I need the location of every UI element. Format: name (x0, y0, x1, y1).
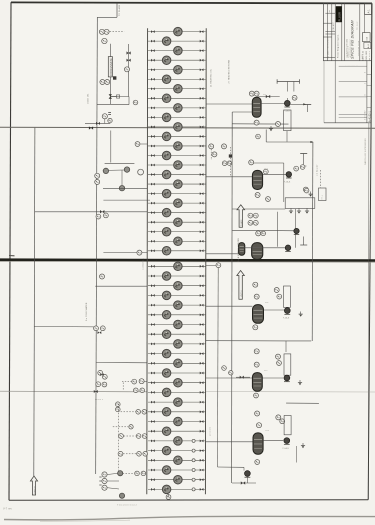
svg-text:P-2A,B: P-2A,B (284, 181, 291, 184)
continuation arrow left (30, 476, 37, 495)
V2 outlet to pump (263, 173, 286, 175)
bubble A4 a (253, 282, 258, 287)
gray dot lower (119, 493, 124, 498)
box E-2 drain 3 (305, 208, 309, 213)
exchanger top pipe (109, 44, 111, 57)
wall cluster dash line (210, 149, 212, 160)
pipe y209 run left (232, 208, 285, 210)
svg-text:PROCESS FLOW: PROCESS FLOW (358, 40, 360, 56)
inst row y436 (119, 434, 147, 439)
exchanger bottom pipe (109, 77, 111, 104)
pipe x286 drop (285, 341, 287, 352)
tray row 37 (148, 378, 206, 387)
strainer box S-5 (284, 354, 291, 375)
tray row 22 (148, 227, 206, 236)
tray row 15 (148, 161, 206, 170)
valve v2 (127, 59, 131, 62)
sheet number cell box (365, 4, 372, 15)
tray row 8 (148, 94, 206, 103)
pipe y142 riser (265, 130, 267, 143)
column line to V6 (206, 441, 253, 443)
valve leg vertical (128, 44, 130, 97)
sheet border left (9, 2, 11, 500)
revision cell line 1 (367, 73, 371, 75)
title left col row 3 (323, 56, 335, 58)
flare pipe vertical (116, 3, 118, 18)
pipe y252 stub (103, 252, 147, 254)
pipe y403 run (286, 402, 319, 404)
bubble pair V3 a (248, 213, 253, 218)
tray row 43 (148, 437, 206, 446)
column bottom bubble (166, 495, 171, 500)
svg-text:No. 4102: No. 4102 (357, 22, 359, 31)
crease line lower right (206, 391, 375, 393)
cluster valve dark (98, 331, 102, 334)
drain pipe drop (104, 119, 106, 123)
connector bubble pair 1a (132, 379, 137, 384)
title block col line 1 (331, 3, 333, 61)
svg-text:D-5: D-5 (264, 370, 267, 372)
bottoms line vertical (246, 477, 248, 483)
svg-text:CHK APP: CHK APP (332, 21, 335, 30)
inst row y411 (121, 410, 147, 415)
pipe y362 branch (96, 362, 147, 364)
bubble stack a (102, 472, 119, 477)
tray row 6 (148, 75, 206, 84)
instrument bubble pair a (100, 80, 105, 85)
revision row 1 (339, 65, 367, 67)
instrument cluster mark (108, 118, 112, 122)
svg-text:NO DATE REVISION BY: NO DATE REVISION BY (327, 36, 330, 58)
drain pipe y123 (85, 122, 110, 124)
vertical x295 stub (295, 209, 297, 248)
drain A4 (299, 312, 303, 317)
link y170 (109, 169, 124, 171)
pump P-3 (285, 245, 291, 251)
box E-2 drain 2 (297, 208, 301, 213)
tray row 10 (148, 113, 206, 122)
drain V2 area (309, 192, 313, 197)
pipe x312 vertical (311, 142, 314, 341)
feed line to V3a (206, 253, 239, 255)
title block row top right (365, 14, 372, 16)
bubble left of V2 top (263, 169, 268, 174)
instrument bubble pair b (105, 80, 110, 85)
tray row 39 (148, 398, 206, 407)
svg-text:D-1: D-1 (263, 94, 266, 96)
junction bubble a (222, 366, 227, 371)
drain below V1 (269, 126, 273, 131)
pipe y188 (103, 188, 147, 190)
stacked pair a (116, 402, 121, 407)
title block col line 0 (326, 3, 328, 61)
bubble below V6 (255, 460, 260, 465)
title block col line 4 (359, 3, 361, 61)
bubble below V2 a (255, 193, 260, 198)
svg-text:FLUOR: FLUOR (338, 12, 342, 22)
actuated valve dark (113, 76, 116, 79)
tray row 3 (148, 46, 206, 55)
svg-text:D-4: D-4 (265, 302, 268, 304)
wall cluster bubble d (222, 161, 227, 166)
bubble below V2 b (266, 197, 271, 202)
title small rect right (363, 33, 371, 42)
svg-text:P-1A,B: P-1A,B (284, 110, 291, 113)
pipe y286 branch (95, 285, 147, 287)
tray row 28 (148, 291, 206, 300)
tray row 38 (148, 388, 206, 397)
reflux pipe with valve (257, 95, 280, 98)
pump P-2 (286, 172, 292, 178)
title block outer box (323, 3, 371, 61)
svg-text:SH 1 OF 2: SH 1 OF 2 (369, 51, 371, 60)
crease line upper (0, 127, 375, 128)
gauge bubble e (119, 186, 124, 191)
bubble above V1 b (254, 91, 259, 96)
tray row 48 (148, 485, 206, 494)
column C-1 right wall (204, 28, 207, 494)
company logo black box (336, 6, 342, 22)
instrument bubble TI-1 (99, 29, 104, 34)
bubble on pipe x95 top (100, 274, 105, 279)
cluster near x95 b (100, 326, 105, 331)
wall cluster bubble e (227, 161, 231, 165)
fold line middle heavy (0, 260, 375, 262)
vessel V-2 accumulator (252, 170, 262, 189)
column feed line to V1 (206, 103, 253, 105)
pipe y211 long (35, 211, 147, 213)
revision area left margin (323, 61, 325, 123)
revision table left edge (334, 61, 336, 123)
pair1 leader dashes (122, 381, 131, 383)
tray row 33 (148, 340, 206, 349)
strainer box S-1 (284, 110, 291, 131)
svg-text:D-6: D-6 (266, 430, 269, 432)
pipe x34 vertical (34, 128, 35, 476)
connector pair y390 b (140, 388, 145, 393)
title cell A4 (364, 42, 371, 48)
bubble V3 f (261, 231, 266, 236)
tray row 20 (148, 208, 206, 217)
pump P1 discharge arrow (291, 103, 307, 105)
pipe x283 drop (283, 163, 285, 202)
title left col row 1 (323, 22, 331, 24)
revision cell line 4 (367, 107, 371, 109)
bubble A6 a (255, 411, 260, 416)
sheet border top (11, 2, 372, 3)
wall bubble y265 (216, 263, 221, 268)
gauge bubble b (124, 167, 129, 172)
bubble under g (96, 214, 101, 219)
wall bubble y144 stub (140, 143, 147, 145)
tray row 42 (148, 427, 206, 436)
tray row 4 (148, 56, 206, 65)
tray row 2 (148, 37, 206, 46)
title block col line 3b (344, 3, 346, 61)
svg-text:2 1 0 REV: 2 1 0 REV (364, 110, 366, 120)
svg-text:41 HEATING OIL: 41 HEATING OIL (209, 68, 212, 87)
svg-text:No: No (329, 10, 331, 12)
wall cluster bubble b (222, 144, 227, 149)
revision cell line 2 (367, 84, 371, 86)
pipe x232 vertical (231, 112, 234, 483)
bubble A4 b (254, 294, 259, 299)
pipe to P3 (238, 247, 285, 249)
bubble near small box (304, 188, 309, 193)
svg-text:TOWER T-1: TOWER T-1 (143, 257, 145, 270)
column line to V4 (206, 305, 252, 307)
tray row 11 (148, 123, 206, 131)
svg-text:TO FLARE: TO FLARE (118, 4, 121, 16)
svg-text:41-4.2 1: 41-4.2 1 (95, 399, 104, 401)
bubble pair V3 b (253, 213, 258, 218)
tray row 16 (148, 170, 206, 179)
stub line to wall 1 (144, 380, 147, 382)
signal dashed line top (107, 30, 125, 32)
x218 elbow drop (243, 467, 245, 470)
bubble near riser (256, 134, 261, 139)
V1 outlet to pump (261, 103, 284, 105)
svg-text:PK-1: PK-1 (322, 195, 324, 200)
wall cluster valve (229, 154, 232, 157)
V5 outlet line (262, 377, 283, 379)
junction bubble b (229, 371, 233, 375)
scan edge faint band left (40, 520, 130, 521)
bubble V3 e (256, 231, 261, 236)
bubble stack b (102, 478, 119, 483)
pipe y163 (105, 162, 135, 164)
continuation arrow A4 (237, 271, 245, 300)
gray dot right of stack (118, 471, 123, 476)
box exchanger E-2 (285, 198, 315, 209)
drop x110 upper (110, 131, 112, 163)
tray row 44 (148, 446, 206, 455)
flange pair marks (108, 113, 111, 115)
tray row 26 (148, 272, 206, 281)
revision row 5 (339, 116, 367, 118)
pipe V1 side elbow (232, 111, 252, 113)
pump P-5 (284, 375, 290, 382)
tray row 12 (148, 132, 206, 141)
bubble A4 c (274, 288, 279, 293)
tray row 32 (148, 330, 206, 339)
tray row 30 (148, 311, 206, 320)
bubble above V2 (249, 160, 254, 165)
connector bubble pair 1b (139, 379, 144, 384)
svg-text:J.R.M.: J.R.M. (362, 53, 364, 59)
column line to V5 (206, 377, 252, 379)
pipe y163 to right (251, 162, 284, 164)
pipe y341 left part (206, 340, 286, 342)
tray row 1 (148, 27, 206, 35)
bypass pipe top (110, 96, 129, 98)
vent stack T upper (304, 105, 311, 113)
pipe y142 arrowhead (310, 141, 313, 143)
svg-text:2: 2 (364, 72, 366, 73)
bubble stack c (102, 485, 119, 490)
bottoms pipe with valve (232, 481, 256, 484)
bubble far right V2 (303, 187, 308, 192)
vent stack T mid (300, 154, 307, 167)
title block col line 2 (334, 3, 336, 61)
gauge pair d (95, 180, 100, 185)
inst row y426 (113, 425, 133, 429)
pipe y341 elbow (286, 340, 311, 342)
pump discharge up (286, 98, 288, 100)
revision row 2 (339, 81, 367, 83)
tray row 29 (148, 301, 206, 310)
revision cell line 3 (367, 96, 371, 98)
crease valve dark (89, 126, 93, 129)
cluster y374 valve (100, 373, 104, 376)
vessel V-6 (253, 433, 263, 454)
svg-text:A-4102-1: A-4102-1 (368, 110, 371, 122)
pump P-7 bottoms (245, 471, 251, 478)
drain T lower (300, 237, 307, 246)
svg-text:Foster Engineering Co.: Foster Engineering Co. (337, 34, 340, 58)
cluster y384 bubble b (102, 382, 107, 387)
svg-text:2in COLD WATER: 2in COLD WATER (85, 302, 88, 321)
stacked pair b (116, 407, 121, 412)
tray row 21 (148, 218, 206, 227)
bubble A5 b (276, 354, 281, 359)
tray row 41 (148, 417, 206, 426)
signal dash to V2 (229, 147, 231, 176)
pump P-2b (294, 228, 299, 234)
tray row 18 (148, 189, 206, 198)
instrument bubble TR-1 (104, 29, 109, 34)
tray row 34 (148, 349, 206, 358)
pump P-4 (284, 308, 290, 315)
bubble A5 d (277, 361, 282, 366)
margin pipe right (367, 123, 370, 500)
tray row 13 (148, 142, 206, 151)
bubble pair V3 c (248, 220, 253, 225)
tray row 17 (148, 180, 206, 189)
tray row 23 (148, 237, 206, 246)
bypass vertical (128, 97, 130, 105)
svg-text:FLARE: FLARE (240, 219, 243, 226)
pipe y230 run (232, 229, 296, 232)
inline valve pair A5 (236, 376, 250, 379)
cluster y384 bubble a (96, 382, 101, 387)
instrument bubble LG-3 (102, 114, 107, 119)
title block row b (325, 30, 335, 32)
tray row 36 (148, 369, 206, 378)
gauge bubble a (103, 168, 108, 173)
svg-text:DWG 4102: DWG 4102 (366, 51, 368, 61)
svg-text:P-4A,B: P-4A,B (283, 317, 290, 320)
svg-text:3in RELIEF: 3in RELIEF (317, 164, 319, 176)
bubble A5 c (254, 362, 259, 367)
control valve CV-1 (109, 94, 120, 99)
instrument bubble PI-2 (125, 67, 130, 72)
sheet border bottom (9, 499, 368, 501)
continuation arrow flare (237, 205, 245, 227)
bubble below V4 (253, 325, 258, 330)
condenser drop 1 (286, 82, 288, 92)
bubble A6 c (276, 415, 281, 420)
strainer outlet drop (286, 131, 288, 142)
svg-text:COLD OIL: COLD OIL (87, 93, 89, 104)
svg-text:CONDENSATE: CONDENSATE (110, 58, 113, 76)
column C-1 left wall (146, 28, 149, 494)
connector pair y390 a (134, 388, 139, 393)
title block col line 5 (364, 3, 366, 42)
revision row 4 (339, 113, 367, 115)
title left col row 2 (323, 36, 331, 38)
wall cluster bubble a (209, 144, 214, 149)
pipe y200 (103, 199, 150, 201)
svg-text:27 HEATING RETURN: 27 HEATING RETURN (228, 59, 231, 83)
pipe y124 run (232, 123, 288, 125)
bubble A6 b (257, 423, 262, 428)
tray row 31 (148, 320, 206, 329)
V6 outlet line (263, 440, 283, 442)
svg-text:4in BTMS: 4in BTMS (210, 426, 212, 436)
bubble A6 d (280, 419, 285, 424)
svg-text:D-2: D-2 (265, 168, 268, 170)
vessel V-3b (252, 243, 263, 260)
junction valve dark (100, 210, 104, 213)
instrument bubble LC-1 (102, 38, 107, 43)
vessel V-1 reflux drum (252, 97, 261, 117)
bubble right of P1 (292, 95, 297, 100)
pipe y142 run (266, 141, 313, 143)
tray row 40 (148, 408, 206, 417)
bubble under h (104, 213, 109, 218)
tray row 47 (148, 475, 206, 484)
pipe y326 branch (34, 326, 95, 328)
inst row y453 (118, 451, 147, 456)
cluster y391 valve (94, 390, 98, 393)
bubble on y252 (137, 250, 142, 255)
small box right (319, 188, 327, 201)
strainer box S-4 (284, 286, 291, 307)
vessel V-4 (253, 305, 264, 324)
box E-2 drain 1 (289, 208, 293, 213)
gauge open f (138, 169, 144, 175)
condenser drop 2 (293, 82, 295, 92)
title block row b2 (325, 33, 335, 35)
tray row 45 (148, 456, 206, 465)
border tick mark (9, 255, 15, 257)
tray row 9 (148, 104, 206, 113)
title block row a (325, 12, 335, 14)
pair1 vert dashes (122, 383, 124, 391)
pump6 down stub (296, 446, 298, 463)
drain A6 (301, 443, 305, 448)
tray row 24 (148, 247, 206, 256)
cross pipe y104 (97, 104, 129, 106)
svg-text:V-7 rev: V-7 rev (3, 507, 13, 511)
column feed line to V2 (206, 176, 252, 178)
vertical x218 segment (217, 268, 220, 467)
sheet border right (368, 3, 372, 500)
strainer box S-6 (284, 416, 291, 435)
vessel V-5 (252, 373, 262, 392)
tray row 14 (148, 151, 206, 160)
vertical x277 stub (277, 212, 279, 247)
cluster near x95 a (94, 326, 99, 331)
revision table right col line (366, 61, 368, 123)
wall cluster bubble c (212, 152, 217, 157)
svg-text:CANCELLED SUPERSEDED: CANCELLED SUPERSEDED (364, 138, 367, 165)
tray row 25 (148, 262, 206, 271)
revision row 3 (339, 96, 367, 98)
bubble right of P2 a (294, 166, 299, 171)
drop x122 (121, 170, 123, 185)
